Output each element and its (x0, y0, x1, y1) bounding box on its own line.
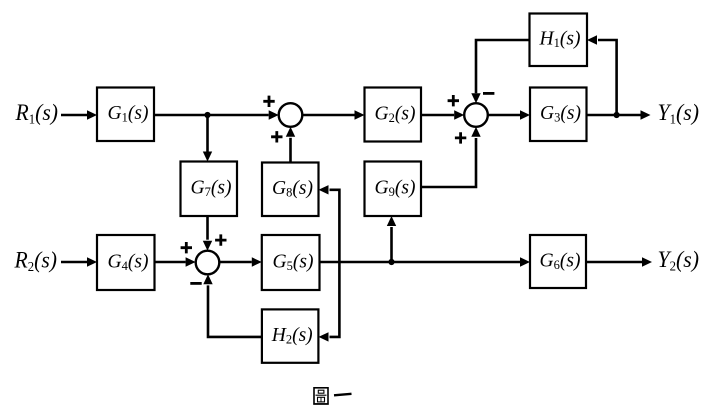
svg-text:R1(s): R1(s) (15, 100, 58, 127)
wire G1 to summing junction S1 (154, 110, 279, 119)
wire pickoff after G5 to G8 (319, 185, 340, 262)
wire G9 to S2 bottom (421, 127, 481, 187)
svg-text:H1(s): H1(s) (539, 29, 581, 50)
svg-text:Y2(s): Y2(s) (658, 247, 700, 274)
wire G4 to summing junction S3 (155, 257, 196, 266)
wire H2 to S3 bottom (203, 274, 262, 337)
wire node B to H1 (587, 35, 617, 115)
wire node A to G7 (203, 115, 212, 162)
plus sign at S3 left input (181, 242, 192, 253)
svg-text:Y1(s): Y1(s) (658, 100, 700, 127)
caption figure one character yi (334, 394, 352, 396)
block G1 (97, 88, 154, 142)
plus sign at S1 bottom input (271, 131, 282, 142)
block G9 (365, 162, 422, 217)
block G4 (97, 235, 155, 290)
wire G2 to summing junction S2 (421, 110, 464, 119)
wire H1 to S2 top (471, 40, 529, 103)
svg-text:R2(s): R2(s) (14, 248, 57, 275)
minus sign at S2 top input (483, 92, 494, 95)
summing junction S3 (196, 251, 220, 275)
block G8 (262, 163, 319, 217)
node B pickoff after G3 (614, 112, 620, 118)
svg-text:G9(s): G9(s) (375, 178, 416, 199)
svg-text:G4(s): G4(s) (108, 252, 149, 273)
plus sign at S3 top input (215, 234, 226, 245)
wire R1 to G1 (61, 110, 97, 119)
caption figure one character tu (313, 388, 328, 404)
svg-text:H2(s): H2(s) (271, 325, 313, 346)
svg-text:G8(s): G8(s) (272, 178, 313, 199)
node C pickoff to G9 (388, 259, 394, 265)
svg-text:G7(s): G7(s) (191, 178, 232, 199)
wire S1 to G2 (302, 110, 364, 119)
wire G6 to Y2 output (586, 257, 652, 266)
summing junction S2 (464, 103, 488, 127)
plus sign at S2 bottom input (455, 132, 466, 143)
block G2 (365, 88, 422, 142)
wire G7 to S3 top (203, 216, 212, 251)
wire S3 to G5 (219, 257, 261, 266)
wire S2 to G3 (488, 110, 530, 119)
wire node C to G9 (387, 216, 396, 262)
wire G8 to S1 bottom (286, 127, 295, 163)
svg-text:G2(s): G2(s) (375, 104, 416, 125)
minus sign at S3 bottom input (190, 282, 201, 285)
block H2 (262, 309, 319, 362)
block G6 (530, 235, 586, 288)
wire R2 to G4 (61, 257, 97, 266)
summing junction S1 (279, 103, 303, 127)
block G5 (262, 235, 320, 290)
block G3 (530, 88, 587, 142)
plus sign at S1 left input (263, 96, 274, 107)
wire G5 to G6 (320, 257, 531, 266)
plus sign at S2 left input (448, 95, 459, 106)
svg-text:G6(s): G6(s) (540, 251, 581, 272)
svg-text:G3(s): G3(s) (540, 103, 581, 124)
wire G3 to Y1 output (587, 110, 651, 119)
block G7 (181, 162, 238, 217)
node A pickoff after G1 (204, 112, 210, 118)
block H1 (530, 14, 588, 67)
svg-text:G5(s): G5(s) (273, 252, 314, 273)
svg-text:G1(s): G1(s) (108, 103, 149, 124)
wire pickoff after G5 to H2 (319, 262, 340, 342)
